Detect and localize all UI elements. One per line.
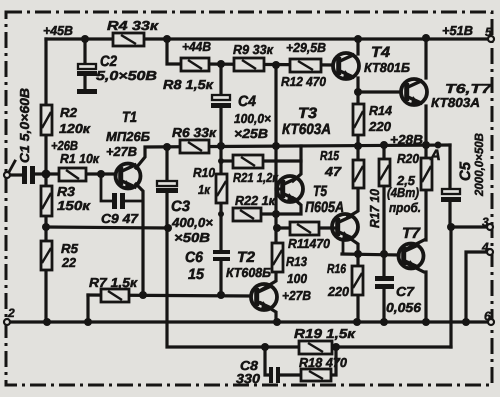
wire: terminal 4 branch (466, 252, 487, 322)
label R5 value (61, 241, 79, 270)
svg-text:С7: С7 (396, 284, 415, 299)
transistor T3 driver (332, 214, 358, 240)
svg-text:R15: R15 (320, 148, 340, 163)
label C3 value (171, 198, 213, 245)
label R15 value (320, 148, 342, 179)
label T5 type (305, 183, 344, 216)
label T6 T7 type (431, 81, 492, 110)
svg-text:R8 1,5к: R8 1,5к (163, 77, 215, 92)
terminal 4 (487, 249, 493, 255)
label C6 value (185, 249, 205, 283)
svg-text:(4Вт): (4Вт) (387, 185, 419, 200)
wire: mid row T1 collector to C5 (node A row) (136, 145, 450, 168)
wire: R8 branch from top rail (167, 39, 182, 64)
svg-text:Т3: Т3 (298, 105, 318, 122)
wire: input to T1 base row (10, 174, 116, 175)
svg-text:+44В: +44В (182, 39, 211, 54)
label +29,5V (286, 40, 326, 55)
terminal 3 (487, 224, 493, 230)
svg-text:+27В: +27В (106, 144, 137, 159)
resistor R20 (421, 158, 432, 190)
label R16 value (327, 261, 350, 299)
svg-text:5,0×50В: 5,0×50В (96, 68, 157, 83)
wire: R7 row to T2 base (88, 295, 251, 296)
terminal 2 (4, 319, 10, 325)
wire: driver emitter to base row of T7 (348, 237, 358, 254)
svg-text:R13: R13 (286, 254, 308, 269)
transistor T7 (399, 244, 424, 269)
svg-text:100: 100 (287, 271, 308, 286)
node dots ground rail (43, 318, 470, 326)
svg-text:330: 330 (236, 371, 261, 386)
svg-text:+51В: +51В (442, 23, 473, 38)
transistor T4 (333, 53, 359, 79)
svg-text:6: 6 (484, 309, 491, 323)
transistor T6 (401, 79, 427, 105)
svg-text:1к: 1к (198, 182, 211, 197)
resistor R15 (353, 160, 364, 188)
label C4 value (234, 93, 271, 141)
label R14 value (368, 103, 393, 134)
wire: T5 collector column (293, 146, 301, 181)
label node 4 (481, 240, 489, 254)
capacitor C5 (441, 189, 461, 202)
node dots T7 base row (354, 250, 388, 258)
label +26V (51, 138, 78, 153)
resistor R4 (113, 33, 144, 46)
label C8 value (236, 358, 261, 386)
label C9 value (101, 211, 139, 226)
resistor R2 (41, 105, 52, 135)
svg-text:Т1: Т1 (122, 109, 137, 126)
wire: feedback column from terminal 3 row (449, 227, 452, 347)
svg-text:R5: R5 (61, 241, 79, 256)
label R3 value (57, 184, 92, 213)
wire: R17 column (382, 145, 385, 254)
capacitor C2 (77, 64, 97, 94)
resistor R12 (290, 59, 321, 72)
label C2 value (96, 53, 157, 83)
svg-text:+28В: +28В (390, 132, 423, 147)
label R21 value (233, 170, 279, 185)
svg-text:R22 1к: R22 1к (235, 193, 276, 208)
label T2 type (226, 249, 271, 280)
svg-text:22: 22 (61, 255, 77, 270)
label C5 value rotated (457, 133, 486, 197)
label R17 value rotated (367, 188, 382, 228)
node dots R11 R13 (273, 224, 281, 232)
svg-text:R18 470: R18 470 (299, 355, 348, 370)
svg-text:2: 2 (7, 306, 15, 320)
label R9 value (233, 42, 274, 57)
svg-text:R6 33к: R6 33к (172, 125, 218, 140)
wire: R8-R9-R12 row to T4 base (205, 64, 333, 65)
wire: T5 emitter row to R22 (260, 198, 301, 214)
wire: output node to terminal 3 (450, 225, 488, 228)
resistor R6 (180, 140, 209, 153)
wire: R3-R5 row to C3 (46, 227, 168, 228)
wire: T3 column mid section (274, 146, 277, 243)
svg-text:R7 1,5к: R7 1,5к (89, 275, 139, 290)
label +44V (182, 39, 211, 54)
svg-text:R16: R16 (327, 261, 347, 276)
terminal 6 (488, 319, 494, 325)
svg-text:Т4: Т4 (371, 44, 391, 61)
svg-text:Т6,Т7: Т6,Т7 (445, 81, 492, 96)
label +45V (43, 23, 73, 38)
transistor T5 (277, 176, 303, 202)
resistor R1 (59, 168, 86, 181)
resistor R16 (352, 266, 363, 295)
wire: T6 emitter column to node A row (424, 106, 427, 145)
wire: C7 leads (382, 254, 385, 322)
svg-text:120к: 120к (59, 121, 92, 136)
svg-text:4: 4 (481, 240, 489, 254)
label R1 value (60, 151, 100, 166)
wire: +45V top rail (46, 37, 491, 40)
node dots T1 base and input (42, 170, 106, 179)
wire: C2 lead (83, 39, 86, 89)
resistor R11 (290, 222, 319, 235)
svg-text:150к: 150к (57, 198, 92, 213)
svg-text:+45В: +45В (43, 23, 73, 38)
capacitor C6 (213, 250, 230, 261)
resistor R8 (181, 58, 209, 71)
resistor R18 (301, 369, 331, 381)
wire: driver collector to R15 (348, 188, 358, 217)
svg-text:220: 220 (368, 119, 392, 134)
svg-text:А: А (429, 147, 441, 164)
svg-text:R12 470: R12 470 (281, 74, 327, 89)
svg-text:R17 10: R17 10 (367, 188, 382, 228)
svg-text:220: 220 (327, 284, 350, 299)
svg-text:С4: С4 (238, 93, 257, 110)
wire: R21 left tap column R10 C6 (219, 146, 222, 295)
wire: T4 emitter to T6 base row (358, 78, 401, 92)
wire: T7 emitter to rail (406, 263, 426, 322)
wire: T3 signal column (274, 65, 277, 146)
wire: T6 collector to rail (424, 38, 427, 78)
svg-text:R10: R10 (193, 165, 216, 180)
svg-text:R1 10к: R1 10к (60, 151, 100, 166)
label +28V (390, 132, 423, 147)
wire: R2/R3/R5 left column (44, 39, 47, 322)
wire: T4 collector to rail (356, 39, 359, 54)
svg-text:проб.: проб. (389, 200, 421, 215)
label R11 value (288, 236, 331, 251)
wire: ground rail (9, 320, 489, 323)
wire: R7 down branch (86, 295, 89, 322)
label node 6 (484, 309, 491, 323)
node dot T4 emitter (354, 88, 362, 96)
resistor R17 (379, 159, 390, 186)
svg-text:R4 33к: R4 33к (107, 18, 160, 33)
wire: C4 column (219, 64, 222, 146)
label R19 value (294, 326, 357, 341)
svg-text:R11470: R11470 (288, 236, 331, 251)
svg-text:R2: R2 (60, 105, 78, 120)
wire: T2 emitter to rail (261, 303, 276, 322)
svg-text:5: 5 (485, 25, 492, 39)
resistor R21 (233, 155, 263, 168)
wire: R16 leads (356, 254, 359, 322)
svg-text:R20: R20 (397, 151, 420, 166)
svg-text:КТ803А: КТ803А (431, 95, 480, 110)
svg-text:×25В: ×25В (234, 126, 268, 141)
wire: R14 column (356, 92, 359, 146)
wire: C5 column (448, 145, 451, 227)
node dots R7 row (139, 291, 225, 299)
label C7 value (386, 284, 422, 315)
label R2 value (59, 105, 92, 136)
wire: R20 column (424, 145, 427, 240)
resistor R13 (272, 243, 283, 272)
wire: C9 branch (101, 174, 143, 201)
svg-text:Т2: Т2 (237, 249, 256, 266)
resistor R3 (41, 186, 52, 216)
wire: T2 collector to R13 (261, 272, 276, 290)
node dot output (447, 223, 455, 231)
svg-text:0,056: 0,056 (386, 300, 422, 315)
svg-text:R19 1,5к: R19 1,5к (294, 326, 357, 341)
node dots bottom feedback (261, 343, 340, 351)
terminal 5 (488, 36, 494, 42)
svg-text:С9 47: С9 47 (101, 211, 139, 226)
wire: R11 row (277, 226, 334, 229)
wire: C8 R18 dip branch (265, 347, 336, 375)
label R7 value (89, 275, 139, 290)
label R10 value (193, 165, 216, 197)
label C1 value rotated (17, 88, 32, 163)
svg-text:С1 5,0×60В: С1 5,0×60В (17, 88, 32, 163)
svg-text:+27В: +27В (282, 288, 311, 303)
node dots left column (42, 223, 172, 232)
node dots mid row (163, 141, 442, 151)
svg-text:КТ801Б: КТ801Б (364, 60, 410, 75)
label node 2 (7, 306, 15, 320)
svg-text:R14: R14 (369, 103, 393, 118)
svg-text:47: 47 (324, 164, 342, 179)
label T7 type (402, 225, 421, 242)
svg-text:С6: С6 (185, 249, 204, 266)
svg-text:R3: R3 (57, 184, 76, 199)
svg-text:С3: С3 (171, 198, 191, 215)
resistor R19 (299, 341, 332, 354)
resistor R7 (101, 289, 129, 302)
label T3 type (282, 105, 331, 138)
svg-text:КТ608Б: КТ608Б (226, 265, 271, 280)
wire: C3 column and bottom feedback wire (167, 147, 451, 347)
label R22 value (235, 193, 276, 208)
node dots R9 row (217, 60, 280, 69)
resistor R5 (41, 241, 52, 270)
label R20 value (387, 151, 421, 215)
resistor R14 (353, 104, 364, 135)
label R13 value (282, 254, 311, 303)
svg-text:100,0×: 100,0× (234, 111, 271, 126)
label +51V (442, 23, 473, 38)
wire: R21 row (221, 159, 301, 162)
wire: R15 top lead (356, 146, 359, 161)
node dots R21 column (218, 158, 280, 218)
svg-text:R9 33к: R9 33к (233, 42, 274, 57)
label node 3 (482, 215, 489, 229)
label R8 value (163, 77, 215, 92)
svg-text:Т5: Т5 (313, 183, 328, 200)
node dots top rail (81, 34, 430, 43)
capacitor C3 (156, 181, 178, 193)
svg-text:3: 3 (482, 215, 489, 229)
label T1 type (106, 109, 150, 159)
capacitor C1 (22, 166, 35, 184)
wire: T7 base row (342, 254, 399, 255)
transistor T1 (116, 164, 141, 189)
capacitor C8 (269, 367, 280, 383)
label R4 value (107, 18, 160, 33)
svg-text:15: 15 (188, 266, 205, 283)
wire: T7 collector to R20 column (406, 240, 424, 249)
svg-text:+29,5В: +29,5В (286, 40, 326, 55)
svg-text:R21 1,2к: R21 1,2к (233, 170, 279, 185)
svg-text:П605А: П605А (305, 199, 344, 216)
terminal 1 input (4, 161, 15, 178)
svg-text:Т7: Т7 (402, 225, 421, 242)
label R12 value (281, 74, 327, 89)
transistor T2 (251, 284, 277, 310)
label R6 value (172, 125, 218, 140)
wire: driver emitter stub (342, 241, 345, 254)
wire: T1 emitter column (136, 184, 143, 295)
svg-text:МП26Б: МП26Б (106, 129, 150, 144)
label node 5 (485, 25, 492, 39)
capacitor C4 (211, 95, 231, 108)
label R18 value (299, 355, 348, 370)
svg-text:КТ603А: КТ603А (282, 121, 331, 138)
label node A (429, 147, 441, 164)
svg-text:2000,0×50В: 2000,0×50В (472, 133, 486, 197)
capacitor C9 (112, 193, 125, 209)
wire: T5 base lead (276, 187, 281, 190)
resistor R22 (233, 208, 261, 221)
label T4 type (364, 44, 410, 75)
resistor R10 (216, 174, 227, 203)
svg-text:×50В: ×50В (174, 230, 210, 245)
svg-text:400,0×: 400,0× (171, 215, 213, 230)
resistor R9 (234, 58, 264, 71)
capacitor C7 (375, 276, 394, 289)
